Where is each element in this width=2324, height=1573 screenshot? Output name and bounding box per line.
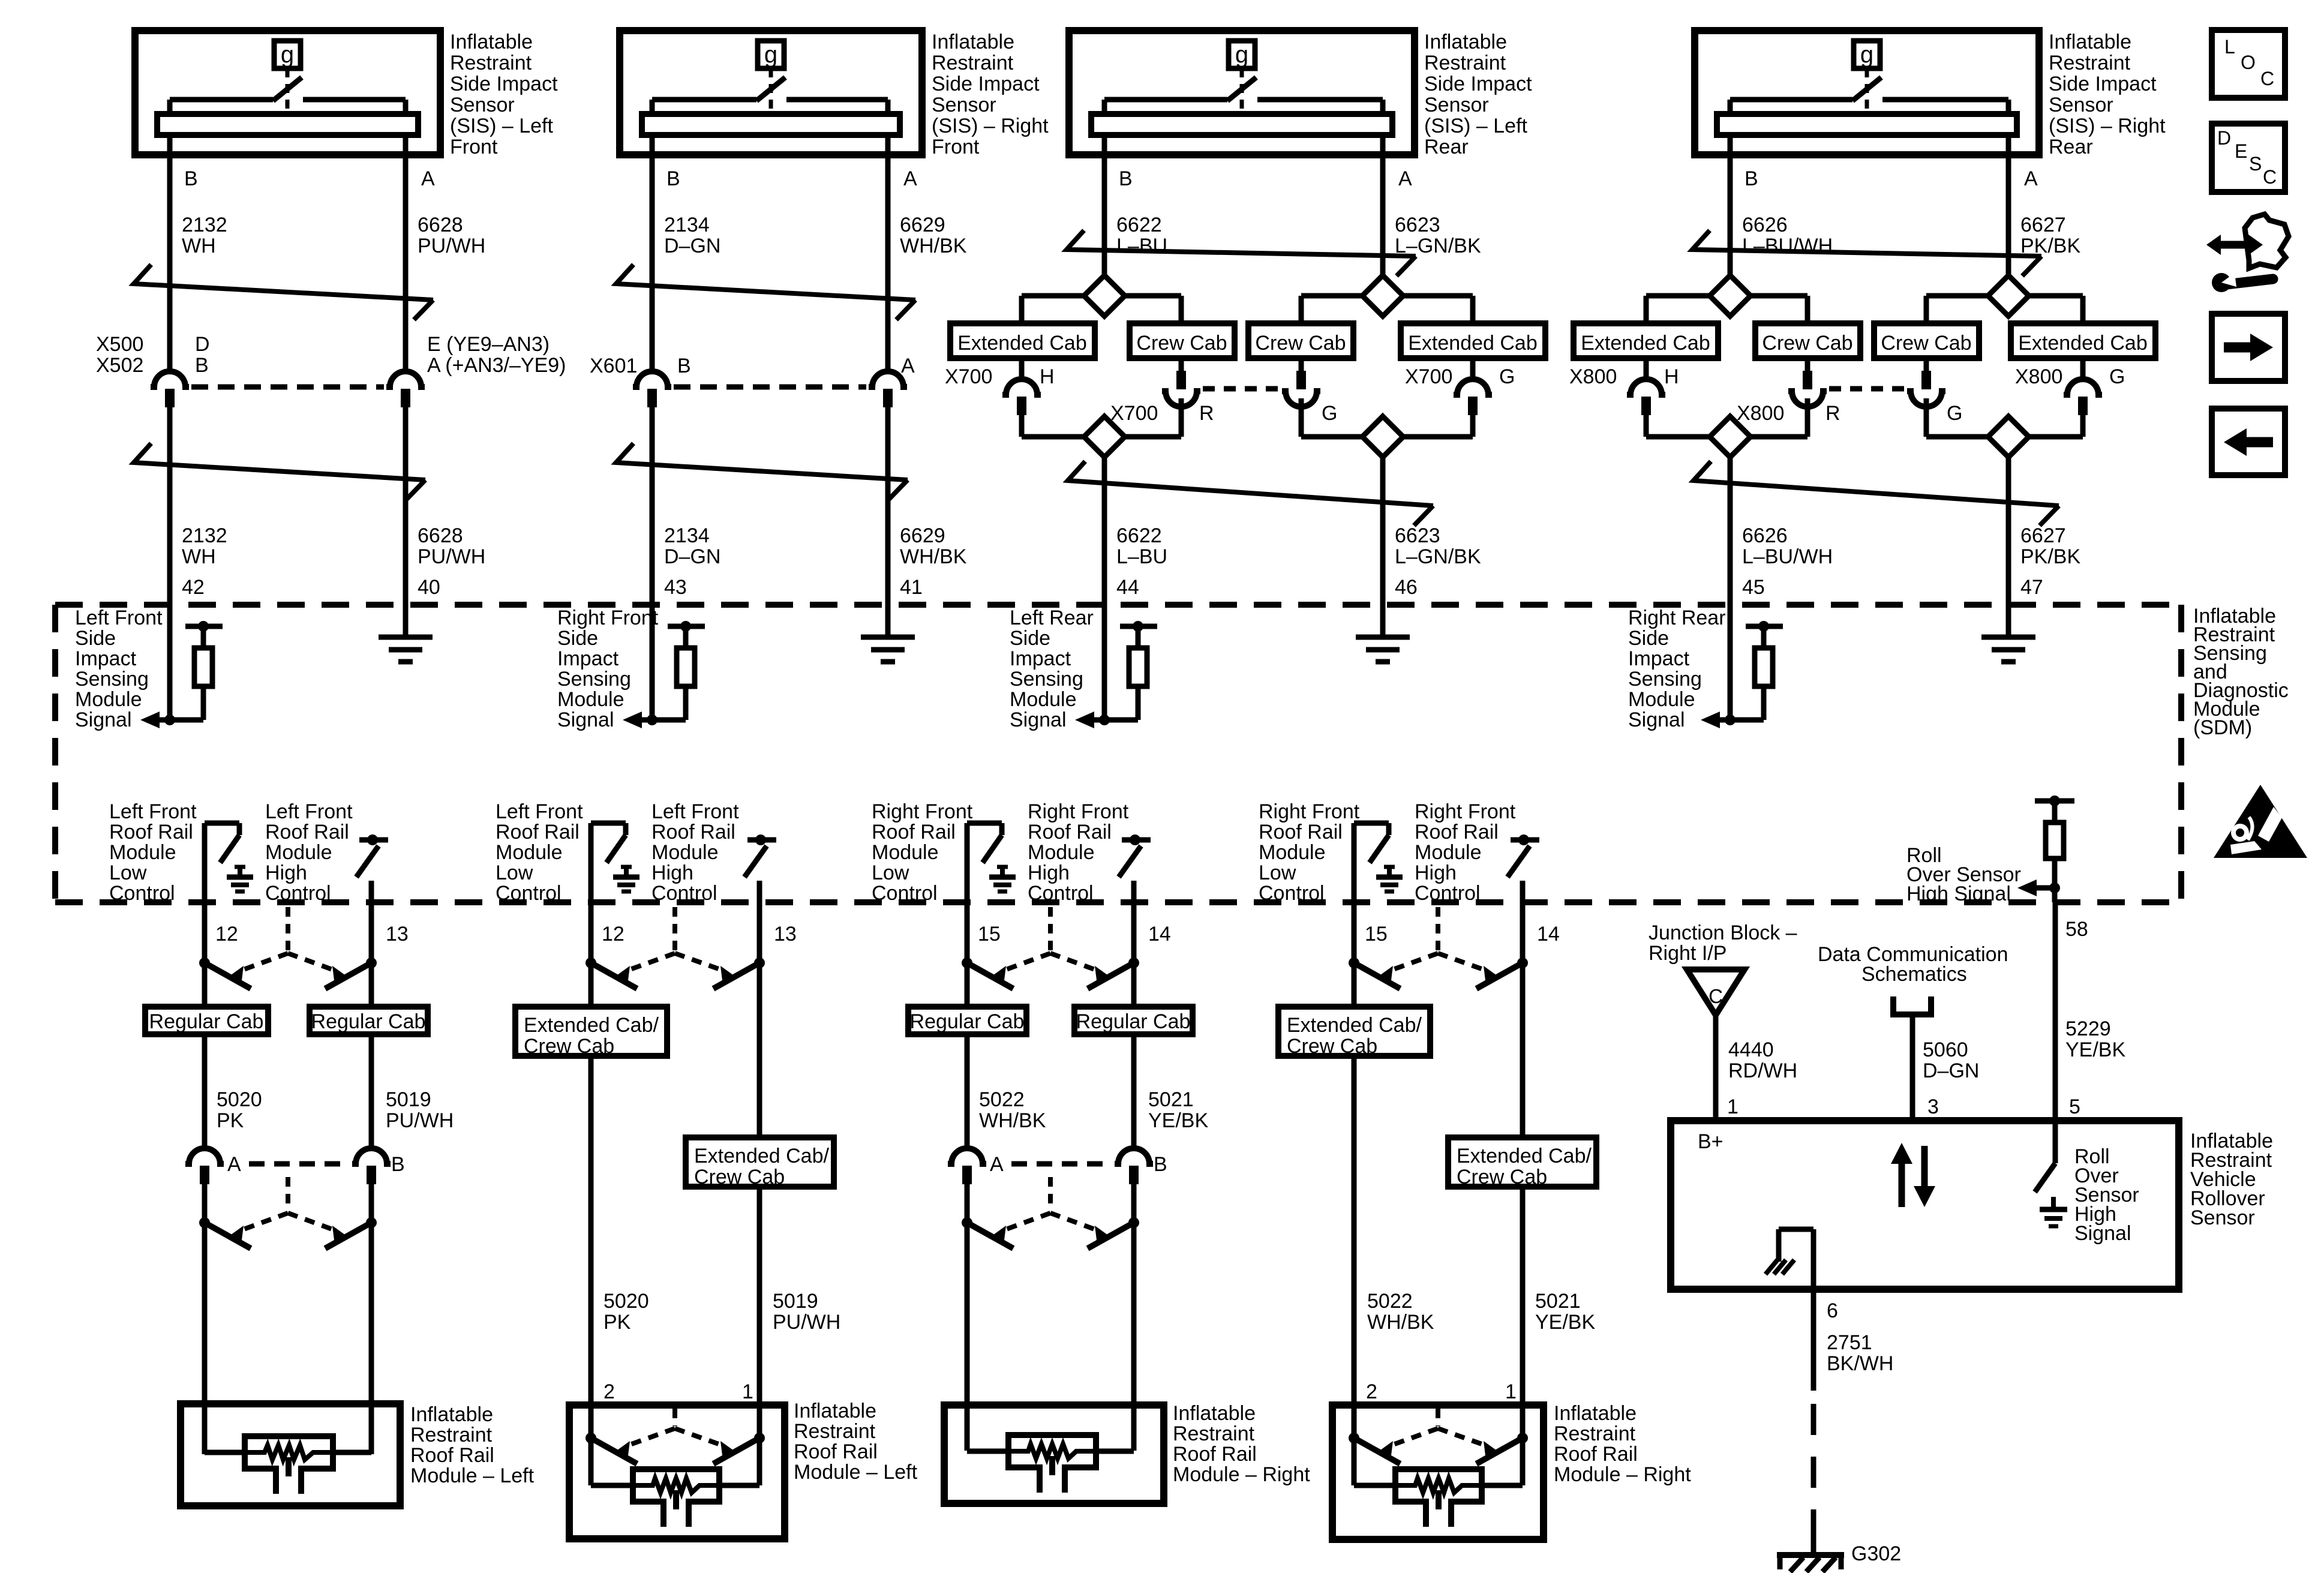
svg-text:Control: Control <box>1028 882 1094 905</box>
g3 high-side driver <box>1122 837 1151 843</box>
svg-text:X800: X800 <box>1569 365 1617 388</box>
svg-text:Roof Rail: Roof Rail <box>651 821 735 843</box>
svg-text:Signal: Signal <box>75 709 132 731</box>
g3 break symbol upper <box>1067 230 1416 256</box>
svg-text:Crew Cab: Crew Cab <box>1287 1035 1377 1058</box>
roof rail module right2 switch <box>1436 1409 1440 1426</box>
g3 SDM pull-up resistor <box>1120 624 1157 629</box>
DESC icon <box>2212 124 2285 192</box>
g2 wire A lower <box>885 407 891 637</box>
svg-text:Restraint: Restraint <box>450 52 532 74</box>
svg-text:Roof Rail: Roof Rail <box>410 1444 494 1467</box>
svg-text:Sensor: Sensor <box>2049 94 2113 116</box>
svg-text:Low: Low <box>496 861 533 884</box>
svg-text:Low: Low <box>872 861 909 884</box>
g4 splice diamond B upper <box>1710 275 1750 316</box>
g1 wire B lower <box>167 407 173 720</box>
svg-text:Right Front: Right Front <box>1415 800 1516 823</box>
svg-text:Roof Rail: Roof Rail <box>1554 1443 1638 1466</box>
g3 branch A-right wire <box>1403 293 1473 299</box>
svg-text:X500: X500 <box>96 333 143 356</box>
g3 low-side driver <box>967 821 1002 826</box>
roof rail module left2 switch <box>672 1409 677 1426</box>
svg-text:5022: 5022 <box>1367 1290 1413 1313</box>
g3 splice diamond B upper <box>1084 275 1125 316</box>
svg-text:L–BU: L–BU <box>1116 235 1167 257</box>
svg-text:Restraint: Restraint <box>1424 52 1506 74</box>
svg-text:A (+AN3/–YE9): A (+AN3/–YE9) <box>427 354 566 377</box>
g2 wire B lower <box>650 407 655 720</box>
svg-text:Inflatable: Inflatable <box>410 1403 493 1426</box>
svg-text:A: A <box>2024 167 2038 190</box>
svg-text:Module – Right: Module – Right <box>1554 1463 1691 1486</box>
g2 break symbol lower <box>616 443 908 480</box>
svg-text:14: 14 <box>1537 923 1560 945</box>
svg-text:WH/BK: WH/BK <box>900 545 967 568</box>
svg-text:YE/BK: YE/BK <box>1535 1311 1595 1334</box>
svg-text:Module – Left: Module – Left <box>410 1464 535 1487</box>
svg-text:Side Impact: Side Impact <box>932 73 1040 95</box>
svg-text:Front: Front <box>932 136 980 158</box>
svg-text:Left Front: Left Front <box>651 800 739 823</box>
g4 wire A from sensor <box>2006 135 2011 275</box>
svg-text:High: High <box>1415 861 1457 884</box>
svg-text:Inflatable: Inflatable <box>932 31 1014 53</box>
svg-text:Control: Control <box>496 882 562 905</box>
g1 wires to module <box>202 1184 208 1454</box>
g2 break symbol upper <box>616 265 915 300</box>
roof rail module left (regular) box <box>181 1404 400 1506</box>
g3 splice diamond A upper <box>1362 275 1403 316</box>
svg-text:Extended Cab: Extended Cab <box>2018 332 2148 355</box>
svg-text:Impact: Impact <box>1628 647 1690 670</box>
svg-text:2: 2 <box>603 1380 615 1403</box>
g2 connector B <box>633 371 671 387</box>
svg-text:6629: 6629 <box>900 524 945 547</box>
svg-text:D–GN: D–GN <box>1923 1059 1979 1082</box>
svg-text:B: B <box>1744 167 1758 190</box>
svg-text:Extended Cab: Extended Cab <box>957 332 1087 355</box>
svg-text:L–BU: L–BU <box>1116 545 1167 568</box>
g3 connector B <box>1115 1148 1153 1164</box>
svg-text:High: High <box>265 861 307 884</box>
svg-text:2134: 2134 <box>664 214 710 236</box>
svg-text:Sensing: Sensing <box>557 668 631 691</box>
g1 connector A <box>386 371 425 387</box>
svg-text:6623: 6623 <box>1395 524 1440 547</box>
g1 SDM ground <box>403 605 409 637</box>
svg-text:(SIS) – Right: (SIS) – Right <box>932 115 1049 137</box>
svg-text:(SIS) – Left: (SIS) – Left <box>1424 115 1528 137</box>
svg-text:A: A <box>901 355 915 377</box>
g4 option box Crew Cab right <box>1874 323 1979 358</box>
g4 connector R <box>1788 391 1827 407</box>
roof rail module left2 squib wires <box>588 1438 594 1485</box>
svg-text:15: 15 <box>1365 923 1388 945</box>
roof rail module right2 squib <box>1395 1478 1482 1493</box>
g3 wire G down <box>1299 398 1304 437</box>
svg-text:X700: X700 <box>1110 402 1158 425</box>
svg-text:Extended Cab/: Extended Cab/ <box>1287 1014 1422 1037</box>
roof rail module right (regular) box <box>944 1405 1164 1503</box>
svg-text:B: B <box>184 167 198 190</box>
svg-text:R: R <box>1199 402 1214 425</box>
svg-text:Regular Cab: Regular Cab <box>311 1010 426 1033</box>
svg-text:H: H <box>1664 365 1679 388</box>
g2 low-side driver <box>591 821 626 826</box>
svg-text:6627: 6627 <box>2020 524 2066 547</box>
g2 SDM ground <box>885 605 891 637</box>
g4 driver wires to pins <box>1352 823 1357 1007</box>
svg-text:D: D <box>195 333 210 356</box>
svg-text:A: A <box>421 167 435 190</box>
svg-text:Crew Cab: Crew Cab <box>524 1035 614 1058</box>
g4 wire B to SDM <box>1728 457 1733 720</box>
g4 low-side driver <box>1354 821 1389 826</box>
g3 branch A-left wire <box>1301 293 1362 299</box>
svg-text:Restraint: Restraint <box>2049 52 2131 74</box>
svg-text:Extended Cab/: Extended Cab/ <box>694 1145 829 1167</box>
svg-text:6622: 6622 <box>1116 214 1162 236</box>
g3 option box Crew Cab left <box>1130 323 1235 358</box>
g4 connector G mid <box>1907 391 1945 407</box>
g1 connector dashed line <box>191 385 384 390</box>
svg-text:g: g <box>1235 41 1248 68</box>
right arrow icon <box>2212 314 2285 381</box>
svg-text:Restraint: Restraint <box>410 1424 493 1446</box>
roof rail module left2 squib <box>633 1478 719 1493</box>
g1 Regular Cab box right <box>310 1007 428 1034</box>
svg-text:Signal: Signal <box>1010 709 1067 731</box>
sensor SIS Left Front box with squib-bar and g-switch <box>135 31 440 155</box>
g4 connector G right <box>2064 379 2102 395</box>
g3 wire B from sensor <box>1102 135 1107 275</box>
svg-text:H: H <box>1040 365 1055 388</box>
svg-text:X800: X800 <box>2015 365 2062 388</box>
svg-text:5021: 5021 <box>1148 1088 1194 1111</box>
svg-text:A: A <box>227 1153 241 1176</box>
roof rail module right2 squib wires <box>1352 1438 1357 1485</box>
g3 wire G2 down <box>1470 415 1476 437</box>
svg-text:L: L <box>2224 36 2235 58</box>
svg-text:PK: PK <box>603 1311 631 1334</box>
svg-text:Sensor: Sensor <box>2190 1206 2255 1229</box>
wire 2751 BK/WH <box>1811 1289 1816 1391</box>
svg-text:5019: 5019 <box>386 1088 431 1111</box>
g4 option switch row 1 <box>1436 907 1440 951</box>
svg-text:6626: 6626 <box>1742 214 1788 236</box>
g3 wires to module <box>965 1184 970 1451</box>
svg-text:B: B <box>1119 167 1133 190</box>
svg-text:G: G <box>1499 365 1515 388</box>
svg-text:Side Impact: Side Impact <box>1424 73 1532 95</box>
svg-text:Impact: Impact <box>1010 647 1071 670</box>
svg-text:46: 46 <box>1395 576 1418 599</box>
svg-text:E (YE9–AN3): E (YE9–AN3) <box>427 333 550 356</box>
g3 wire H down <box>1019 415 1025 437</box>
svg-text:Restraint: Restraint <box>794 1420 876 1443</box>
G302 ground <box>1811 1536 1816 1555</box>
g1 wire B upper <box>167 135 173 373</box>
svg-text:Module: Module <box>1628 688 1695 711</box>
svg-text:Front: Front <box>450 136 498 158</box>
svg-text:Rear: Rear <box>2049 136 2093 158</box>
svg-text:X700: X700 <box>945 365 992 388</box>
g3 connector G mid <box>1282 391 1320 407</box>
SDM rollover pull-up resistor <box>2035 798 2074 804</box>
svg-text:Sensor: Sensor <box>932 94 996 116</box>
svg-text:2132: 2132 <box>182 214 227 236</box>
roof rail module left squib <box>205 1450 245 1455</box>
svg-text:Roof Rail: Roof Rail <box>1173 1443 1257 1466</box>
svg-text:Right Front: Right Front <box>1028 800 1129 823</box>
svg-text:Crew Cab: Crew Cab <box>1457 1166 1547 1188</box>
svg-text:5019: 5019 <box>773 1290 818 1313</box>
svg-text:Restraint: Restraint <box>932 52 1014 74</box>
svg-text:WH/BK: WH/BK <box>979 1109 1046 1132</box>
svg-text:Control: Control <box>1259 882 1325 905</box>
g4 Extended/Crew Cab box right <box>1448 1137 1596 1187</box>
svg-text:C: C <box>2263 166 2277 188</box>
rollover internal ground <box>1811 1229 1816 1289</box>
g1 low-side driver <box>205 821 239 826</box>
g1 option switch row 1 <box>286 907 290 951</box>
svg-text:Inflatable: Inflatable <box>2049 31 2131 53</box>
g1 connector A <box>185 1148 224 1164</box>
svg-text:Low: Low <box>109 861 147 884</box>
svg-text:Side: Side <box>75 627 116 650</box>
svg-text:X800: X800 <box>1737 402 1784 425</box>
g1 break symbol upper <box>134 265 433 300</box>
svg-text:BK/WH: BK/WH <box>1827 1352 1893 1375</box>
svg-text:Inflatable: Inflatable <box>1554 1402 1637 1425</box>
sensor SIS Right Rear box with squib-bar and g-switch <box>1695 31 2039 155</box>
g2 connector dashed line <box>674 385 866 390</box>
g4 splice diamond A upper <box>1988 275 2029 316</box>
svg-text:Crew Cab: Crew Cab <box>1881 332 1971 355</box>
g1 wire 13 below box <box>369 1034 374 1151</box>
svg-text:G302: G302 <box>1851 1542 1901 1565</box>
svg-text:Module: Module <box>496 841 563 864</box>
g4 SDM ground <box>2006 605 2011 637</box>
svg-text:2: 2 <box>1366 1380 1377 1403</box>
svg-text:6628: 6628 <box>418 214 463 236</box>
g1 Regular Cab box left <box>145 1007 268 1034</box>
svg-text:1: 1 <box>742 1380 753 1403</box>
svg-text:Side: Side <box>1010 627 1050 650</box>
g4 splice diamond B lower <box>1710 416 1750 457</box>
wrench-arrow icon <box>2220 241 2256 249</box>
svg-text:47: 47 <box>2020 576 2043 599</box>
svg-text:Sensing: Sensing <box>1010 668 1083 691</box>
svg-text:Roof Rail: Roof Rail <box>265 821 349 843</box>
g1 connector B <box>352 1148 391 1164</box>
g4 wire G down <box>1924 398 1929 437</box>
svg-text:Left Front: Left Front <box>496 800 583 823</box>
svg-text:Left Front: Left Front <box>75 607 163 629</box>
svg-text:12: 12 <box>602 923 624 945</box>
svg-text:G: G <box>1322 402 1337 425</box>
svg-text:Impact: Impact <box>557 647 619 670</box>
svg-text:3: 3 <box>1927 1095 1939 1118</box>
svg-text:2134: 2134 <box>664 524 710 547</box>
svg-text:Roof Rail: Roof Rail <box>496 821 580 843</box>
svg-text:Module – Left: Module – Left <box>794 1461 918 1484</box>
svg-text:Side Impact: Side Impact <box>2049 73 2157 95</box>
g4 wire R down <box>1805 398 1810 437</box>
svg-text:D–GN: D–GN <box>664 235 720 257</box>
SRS warning triangle <box>2214 785 2307 858</box>
svg-text:PU/WH: PU/WH <box>386 1109 454 1132</box>
svg-text:Right Front: Right Front <box>557 607 659 629</box>
svg-text:Left Front: Left Front <box>109 800 197 823</box>
svg-text:B+: B+ <box>1698 1130 1724 1153</box>
g3 branch B-left wire <box>1022 293 1084 299</box>
svg-text:Roof Rail: Roof Rail <box>872 821 956 843</box>
svg-text:40: 40 <box>418 576 440 599</box>
svg-text:X700: X700 <box>1405 365 1452 388</box>
g3 splice diamond A lower <box>1362 416 1403 457</box>
g4 branch B-right wire <box>1750 293 1807 299</box>
svg-text:High Signal: High Signal <box>1906 882 2011 905</box>
g3 option switch row 2 <box>1048 1177 1053 1211</box>
svg-text:C: C <box>2260 68 2274 89</box>
g3 Regular Cab box left <box>908 1007 1026 1034</box>
svg-text:A: A <box>903 167 917 190</box>
svg-text:Regular Cab: Regular Cab <box>910 1010 1025 1033</box>
g4 connector H <box>1627 379 1665 395</box>
svg-text:6627: 6627 <box>2020 214 2066 236</box>
svg-text:45: 45 <box>1742 576 1765 599</box>
g3 connector dashed line 2 <box>1011 1161 1112 1167</box>
g3 Regular Cab box right <box>1074 1007 1193 1034</box>
g3 wire A to SDM <box>1380 457 1386 637</box>
data link connector symbol <box>1890 996 1896 1014</box>
svg-text:E: E <box>2235 140 2247 162</box>
svg-text:Signal: Signal <box>1628 709 1685 731</box>
svg-text:Crew Cab: Crew Cab <box>694 1166 785 1188</box>
g1 SDM pull-up resistor <box>185 624 223 629</box>
svg-text:D: D <box>2217 127 2231 149</box>
svg-text:Side Impact: Side Impact <box>450 73 558 95</box>
g4 option box Extended Cab left <box>1574 323 1718 358</box>
svg-text:Sensing: Sensing <box>1628 668 1702 691</box>
rollover sensor box <box>1671 1121 2179 1289</box>
svg-text:6629: 6629 <box>900 214 945 236</box>
g2 driver wires to pins <box>588 823 594 1007</box>
svg-text:L–BU/WH: L–BU/WH <box>1742 545 1833 568</box>
svg-text:Crew Cab: Crew Cab <box>1255 332 1346 355</box>
svg-text:6628: 6628 <box>418 524 463 547</box>
svg-text:Signal: Signal <box>557 709 614 731</box>
svg-text:Sensor: Sensor <box>450 94 515 116</box>
svg-text:Impact: Impact <box>75 647 137 670</box>
svg-text:Module: Module <box>1010 688 1077 711</box>
svg-text:5022: 5022 <box>979 1088 1025 1111</box>
svg-text:6626: 6626 <box>1742 524 1788 547</box>
svg-text:6: 6 <box>1827 1299 1838 1322</box>
g4 wire A to SDM <box>2006 457 2011 637</box>
svg-text:PU/WH: PU/WH <box>418 235 485 257</box>
svg-text:WH/BK: WH/BK <box>900 235 967 257</box>
svg-text:YE/BK: YE/BK <box>2065 1038 2125 1061</box>
svg-text:Inflatable: Inflatable <box>794 1400 876 1422</box>
svg-text:B: B <box>195 354 209 377</box>
wire 5229 YE/BK <box>2053 902 2058 1121</box>
svg-text:Regular Cab: Regular Cab <box>1076 1010 1191 1033</box>
serial data arrows <box>1899 1161 1905 1207</box>
svg-text:(SIS) – Left: (SIS) – Left <box>450 115 554 137</box>
g3 option box Extended Cab left <box>950 323 1095 358</box>
svg-text:WH/BK: WH/BK <box>1367 1311 1434 1334</box>
svg-text:5020: 5020 <box>217 1088 262 1111</box>
svg-text:13: 13 <box>774 923 797 945</box>
svg-text:Left Rear: Left Rear <box>1010 607 1094 629</box>
sensor SIS Right Front box with squib-bar and g-switch <box>620 31 922 155</box>
svg-text:5: 5 <box>2069 1095 2080 1118</box>
svg-text:2132: 2132 <box>182 524 227 547</box>
svg-text:B: B <box>391 1153 405 1176</box>
svg-text:Control: Control <box>265 882 331 905</box>
g3 connector A <box>948 1148 986 1164</box>
svg-text:PU/WH: PU/WH <box>773 1311 840 1334</box>
svg-text:44: 44 <box>1116 576 1139 599</box>
svg-text:41: 41 <box>900 576 923 599</box>
svg-text:Module: Module <box>1028 841 1095 864</box>
svg-text:1: 1 <box>1505 1380 1517 1403</box>
svg-text:Module – Right: Module – Right <box>1173 1463 1310 1486</box>
g3 branch B-right wire <box>1125 293 1181 299</box>
svg-text:B: B <box>666 167 680 190</box>
svg-text:Roof Rail: Roof Rail <box>109 821 193 843</box>
roof rail module right (ext/crew) box <box>1332 1405 1544 1539</box>
svg-text:WH: WH <box>182 235 216 257</box>
g2 wire B upper <box>650 135 655 373</box>
svg-text:Crew Cab: Crew Cab <box>1136 332 1227 355</box>
g3 break symbol lower <box>1068 461 1433 506</box>
g4 option box Extended Cab right <box>2011 323 2155 358</box>
g4 SDM pull-up resistor <box>1746 624 1783 629</box>
g1 wire A lower <box>403 407 409 637</box>
g3 splice diamond B lower <box>1084 416 1125 457</box>
svg-text:Extended Cab/: Extended Cab/ <box>1457 1145 1592 1167</box>
svg-text:Roof Rail: Roof Rail <box>1259 821 1343 843</box>
svg-text:Low: Low <box>1259 861 1296 884</box>
svg-text:A: A <box>1398 167 1412 190</box>
svg-text:Signal: Signal <box>2074 1222 2131 1245</box>
g1 wire A upper <box>403 135 409 373</box>
svg-text:g: g <box>281 41 294 68</box>
g3 wire B to SDM <box>1102 457 1107 720</box>
g4 wire H down <box>1644 415 1649 437</box>
g2 SDM pull-up resistor <box>668 624 705 629</box>
svg-text:Restraint: Restraint <box>1554 1422 1636 1445</box>
g4 branch A-right wire <box>2029 293 2083 299</box>
svg-text:Extended Cab/: Extended Cab/ <box>524 1014 659 1037</box>
svg-text:5229: 5229 <box>2065 1017 2111 1040</box>
roof rail module right squib <box>967 1449 1008 1454</box>
svg-text:Module: Module <box>1259 841 1326 864</box>
g4 wire 1 long <box>1520 881 1526 1137</box>
g4 splice diamond A lower <box>1988 416 2029 457</box>
svg-text:12: 12 <box>215 923 238 945</box>
svg-text:Module: Module <box>557 688 624 711</box>
g2 Extended/Crew Cab box left <box>515 1007 667 1056</box>
svg-text:5020: 5020 <box>603 1290 649 1313</box>
svg-text:5060: 5060 <box>1923 1038 1968 1061</box>
svg-text:Inflatable: Inflatable <box>450 31 533 53</box>
g3 connector G right <box>1454 379 1492 395</box>
